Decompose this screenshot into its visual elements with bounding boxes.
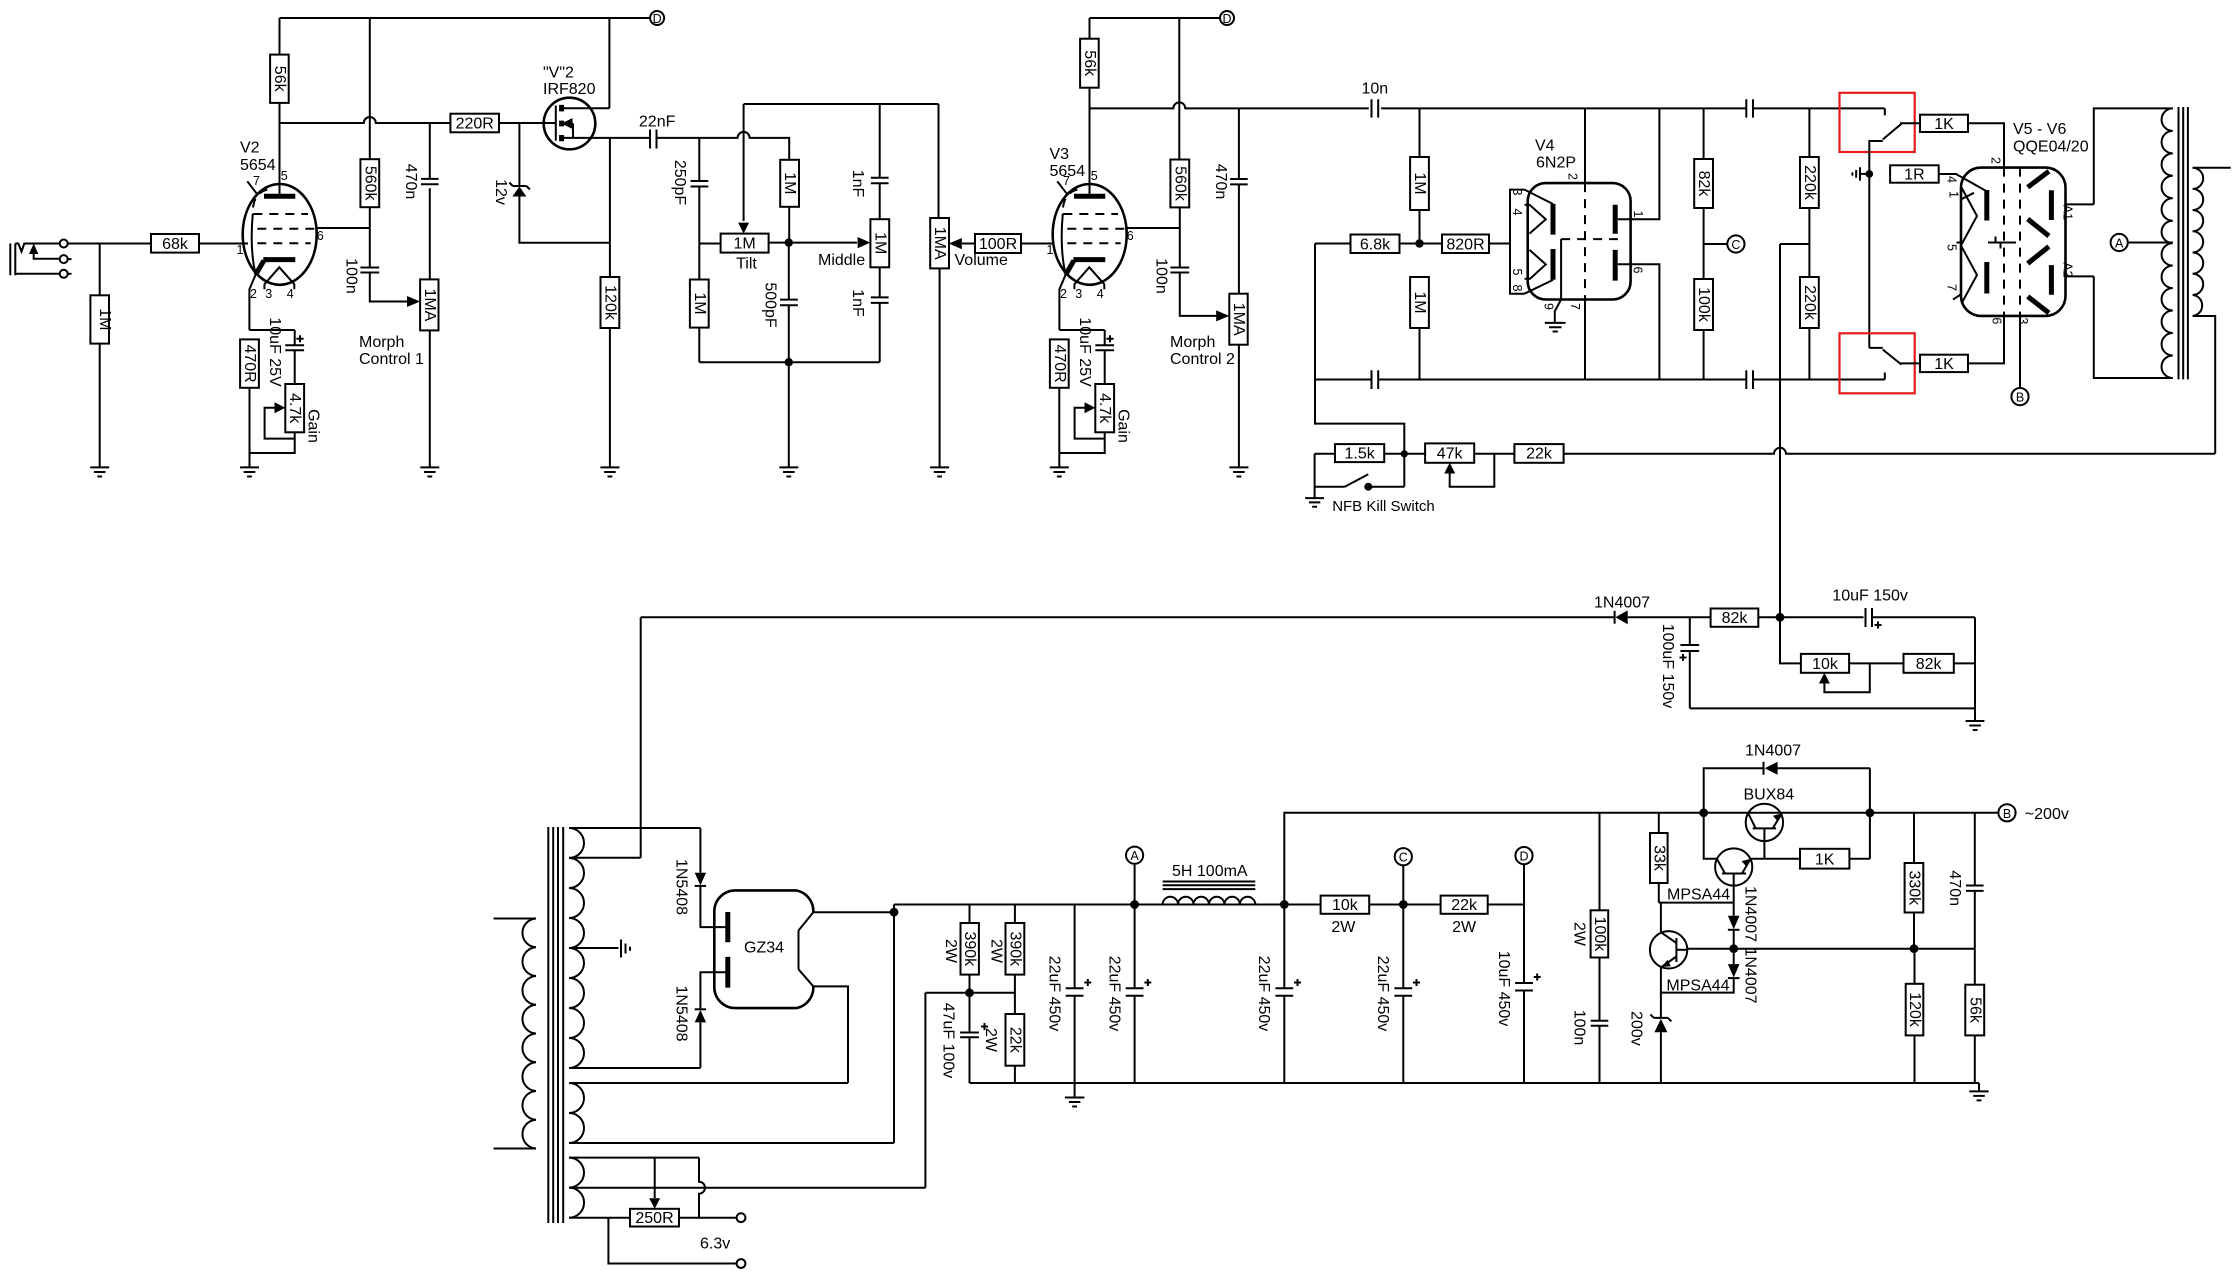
svg-text:~200v: ~200v	[2025, 806, 2069, 823]
svg-text:10uF 25V: 10uF 25V	[1076, 317, 1093, 387]
svg-text:1M: 1M	[871, 232, 888, 254]
svg-text:7: 7	[1063, 174, 1070, 188]
rail (V3 top)	[1090, 17, 1221, 19]
svg-text:5H 100mA: 5H 100mA	[1172, 863, 1248, 880]
resistor 10k 2W	[1321, 896, 1370, 914]
svg-text:500pF: 500pF	[762, 282, 779, 328]
svg-text:10k: 10k	[1332, 897, 1359, 914]
svg-text:4: 4	[1097, 287, 1104, 301]
svg-text:22uF 450v: 22uF 450v	[1106, 956, 1123, 1032]
svg-text:A: A	[2115, 237, 2124, 251]
svg-text:2: 2	[250, 287, 257, 301]
resistor 470R	[249, 330, 294, 345]
pot 1MA (Morph Control 2)	[1229, 294, 1247, 345]
capacitor 100uF 150v	[1689, 617, 1691, 645]
svg-text:1M: 1M	[1411, 172, 1428, 194]
svg-text:6N2P: 6N2P	[1536, 155, 1576, 172]
svg-text:5: 5	[1091, 169, 1098, 183]
svg-text:V2: V2	[240, 140, 260, 157]
diode 1N4007 (bypass)	[1704, 768, 1764, 813]
svg-text:470R: 470R	[241, 344, 258, 382]
svg-text:120k: 120k	[601, 285, 618, 321]
screen feed vertical (220k mid to divider)	[1779, 244, 1781, 613]
capacitor 10n	[1372, 99, 1379, 117]
svg-text:56k: 56k	[1081, 50, 1098, 77]
5V winding	[569, 1083, 584, 1143]
svg-text:A: A	[1130, 849, 1139, 863]
node dot (V4 grid divider)	[1415, 239, 1423, 247]
junction dot (grid ref)	[1866, 170, 1874, 178]
svg-text:82k: 82k	[1695, 171, 1712, 198]
V4 right vertical	[1584, 300, 1586, 380]
svg-text:3: 3	[2016, 317, 2030, 324]
svg-text:390k: 390k	[961, 931, 978, 967]
capacitor 22uF 450v (2)	[1134, 905, 1136, 989]
rail (V2 top)	[280, 17, 651, 19]
svg-text:5: 5	[1945, 244, 1959, 251]
svg-text:Control 2: Control 2	[1170, 351, 1235, 368]
resistor 56k (sense)	[1974, 949, 1976, 985]
svg-text:Control 1: Control 1	[359, 351, 424, 368]
resistor 820R	[1442, 235, 1489, 254]
resistor 22k (NFB)	[1514, 444, 1563, 463]
svg-text:QQE04/20: QQE04/20	[2013, 139, 2089, 156]
ground (Morph2)	[1229, 467, 1248, 476]
jack switch (lower)	[1869, 348, 1901, 365]
svg-text:5: 5	[281, 169, 288, 183]
wire rail to 560k (V3)	[1178, 18, 1180, 160]
wire base node to 1K	[1751, 858, 1800, 860]
svg-text:100k: 100k	[1591, 917, 1608, 953]
resistor 1M (V4 lower)	[1410, 277, 1429, 328]
capacitor 10uF 25V (V3)	[1095, 345, 1114, 350]
wire 22nF to 1M top (with hop over tilt wiper)	[699, 132, 789, 160]
zener 12v	[518, 123, 520, 186]
resistor 1K (lower grid)	[1900, 362, 1920, 364]
transistor MPSA44 (upper)	[1715, 848, 1752, 915]
HT tap to standby line	[569, 617, 641, 858]
diode 1N4007 (feed)	[1614, 611, 1616, 624]
diode 1N4007 (base lower)	[1733, 949, 1735, 964]
node C	[1704, 243, 1728, 245]
svg-text:A1: A1	[2060, 205, 2074, 220]
svg-text:200v: 200v	[1628, 1011, 1645, 1046]
wiper arrow Morph1	[407, 296, 420, 307]
capacitor 500pF	[788, 243, 790, 300]
svg-text:470n: 470n	[1212, 164, 1229, 200]
svg-text:6: 6	[1127, 229, 1134, 243]
svg-text:47uF 100v: 47uF 100v	[940, 1003, 957, 1079]
svg-text:1: 1	[237, 243, 244, 257]
node D (V3 rail)	[1220, 11, 1234, 25]
svg-text:1: 1	[1631, 211, 1645, 218]
svg-text:470n: 470n	[402, 164, 419, 200]
power transformer T1 primary	[494, 918, 537, 920]
tube V2 5654	[237, 123, 324, 330]
svg-text:9: 9	[1542, 303, 1556, 310]
wire V4 pin1 up	[1618, 108, 1660, 219]
svg-text:1N4007: 1N4007	[1742, 947, 1759, 1003]
pot 4.7k (Gain V3)	[1095, 384, 1114, 432]
resistor 1K (regulator)	[1800, 849, 1849, 869]
pot 4.7k (Gain)	[285, 384, 304, 432]
svg-text:1K: 1K	[1934, 356, 1954, 373]
svg-text:330k: 330k	[1906, 870, 1923, 906]
capacitor 10uF 450v	[1523, 905, 1525, 984]
ground (main)	[1074, 1083, 1076, 1098]
svg-text:100R: 100R	[979, 236, 1017, 253]
svg-text:220k: 220k	[1801, 285, 1818, 321]
resistor 1M (tone bottom-left)	[690, 280, 709, 328]
capacitor 1nF (top)	[879, 104, 881, 178]
resistor 56k (V3 plate)	[1080, 39, 1099, 88]
resistor 1.5k	[1315, 453, 1335, 455]
ground (grid ref)	[1860, 173, 1869, 175]
svg-text:1K: 1K	[1934, 116, 1954, 133]
ground (V3 cathode)	[1050, 467, 1069, 476]
svg-text:5: 5	[1510, 269, 1524, 276]
pot 250R (humdinger)	[654, 1158, 656, 1198]
svg-text:8: 8	[1510, 285, 1524, 292]
svg-text:100uF 150v: 100uF 150v	[1659, 624, 1676, 709]
node A (PSU)	[1126, 847, 1143, 864]
capacitor 47uF 100v	[960, 1033, 979, 1038]
wire Tilt to node	[769, 242, 789, 244]
svg-text:22uF 450v: 22uF 450v	[1374, 956, 1391, 1032]
resistor 390k 2W (left)	[969, 905, 971, 924]
resistor 82k (V4 plate upper)	[1703, 108, 1705, 159]
svg-text:A2: A2	[2060, 262, 2074, 277]
pot 1MA (Volume)	[938, 104, 940, 218]
svg-text:V5 - V6: V5 - V6	[2013, 121, 2066, 138]
node D (PSU)	[1515, 847, 1532, 864]
svg-text:V3: V3	[1050, 146, 1070, 163]
svg-text:7: 7	[1568, 303, 1582, 310]
svg-text:D: D	[1222, 12, 1231, 26]
ground (120k)	[600, 467, 619, 476]
svg-text:2: 2	[1566, 173, 1580, 180]
wire 56k to 220R (gate line) with hop	[280, 117, 451, 123]
transistor MPSA44 (lower)	[1650, 931, 1730, 994]
svg-text:22uF 450v: 22uF 450v	[1255, 956, 1272, 1032]
heater reference riser	[925, 993, 960, 1188]
wire V2 pin6 row	[317, 228, 370, 268]
svg-text:470n: 470n	[1946, 870, 1963, 906]
svg-text:220k: 220k	[1801, 165, 1818, 201]
input jack J1	[10, 240, 71, 278]
svg-text:Volume: Volume	[955, 252, 1008, 269]
tone stack bottom wire	[699, 361, 879, 363]
tone stack top wire	[744, 103, 939, 105]
wire V3 pin6 row	[1127, 228, 1180, 268]
ground (input)	[90, 467, 109, 476]
svg-text:56k: 56k	[1966, 997, 1983, 1024]
resistor 220k (upper)	[1808, 108, 1810, 157]
svg-text:220R: 220R	[456, 116, 494, 133]
svg-text:100n: 100n	[343, 258, 360, 294]
capacitor 10uF 25V	[285, 345, 304, 350]
svg-text:250R: 250R	[635, 1210, 673, 1227]
svg-text:1nF: 1nF	[849, 170, 866, 198]
NFB line to output transformer (hop at 1780)	[1564, 448, 2216, 454]
svg-text:BUX84: BUX84	[1744, 786, 1795, 803]
standby feed line	[641, 616, 1615, 618]
svg-text:C: C	[1399, 851, 1408, 865]
svg-text:560k: 560k	[1171, 166, 1188, 202]
relay box (upper, red)	[1840, 93, 1915, 152]
svg-text:3: 3	[1510, 189, 1524, 196]
capacitor 470n (V2)	[429, 123, 431, 179]
svg-text:IRF820: IRF820	[543, 81, 596, 98]
capacitor 470n (V3)	[1238, 108, 1240, 179]
capacitor 470n (reg)	[1974, 813, 1976, 886]
svg-text:4: 4	[1945, 176, 1959, 183]
svg-text:4: 4	[1510, 209, 1524, 216]
resistor 82k (divider top)	[1711, 609, 1759, 627]
svg-text:1nF: 1nF	[849, 289, 866, 317]
svg-text:6: 6	[1631, 267, 1645, 274]
jack switch (upper)	[1869, 124, 1901, 174]
tube V4 6N2P	[1510, 108, 1645, 323]
svg-text:390k: 390k	[1006, 931, 1023, 967]
ground (switch)	[1314, 487, 1316, 498]
svg-text:4.7k: 4.7k	[1096, 393, 1113, 424]
svg-text:MPSA44: MPSA44	[1666, 978, 1729, 995]
B+ rail	[894, 904, 1524, 906]
6.3V heater winding	[569, 1158, 584, 1218]
zener 200v	[1650, 1014, 1671, 1021]
resistor 6.8k	[1315, 243, 1351, 245]
diode 1N5408 (lower)	[699, 1022, 701, 1068]
svg-text:1N4007: 1N4007	[1594, 595, 1650, 612]
svg-text:C: C	[1731, 238, 1740, 252]
svg-text:1N5408: 1N5408	[673, 859, 690, 915]
svg-text:33k: 33k	[1650, 845, 1667, 872]
NFB kill switch	[1315, 454, 1369, 487]
main line 10n to output caps	[1381, 108, 1885, 115]
resistor 68k	[151, 234, 199, 253]
mosfet "V"2 IRF820	[543, 18, 650, 149]
svg-text:4.7k: 4.7k	[286, 393, 303, 424]
svg-text:2W: 2W	[1331, 919, 1356, 936]
pot 1M (Tilt)	[721, 234, 769, 253]
base sense line	[1687, 948, 1975, 950]
svg-text:1MA: 1MA	[421, 288, 438, 321]
svg-text:56k: 56k	[271, 66, 288, 93]
ground (Volume)	[930, 467, 949, 476]
svg-text:560k: 560k	[361, 166, 378, 202]
node dot (tone)	[785, 238, 793, 246]
choke 5H 100mA	[1163, 882, 1256, 890]
svg-text:10uF 150v: 10uF 150v	[1832, 588, 1908, 605]
svg-text:470R: 470R	[1051, 344, 1068, 382]
svg-text:10n: 10n	[1362, 81, 1389, 98]
node A (OT center tap)	[2111, 234, 2128, 251]
wire 68k to V2 pin1	[199, 243, 248, 245]
HT secondary winding	[569, 828, 584, 1068]
svg-text:1N4007: 1N4007	[1745, 743, 1801, 760]
capacitor 100n (V2)	[360, 268, 379, 273]
capacitor 22nF	[650, 130, 657, 149]
resistor 470R (V3)	[1059, 330, 1104, 345]
svg-text:Morph: Morph	[359, 334, 404, 351]
transistor BUX84	[1744, 786, 1795, 858]
svg-text:22nF: 22nF	[639, 113, 676, 130]
capacitor 100n (V3)	[1170, 268, 1189, 273]
capacitor 250pF	[698, 138, 700, 181]
tube V3 5654	[1047, 108, 1134, 330]
svg-text:10uF 450v: 10uF 450v	[1495, 951, 1512, 1027]
vertical grid-ref bus	[1868, 174, 1870, 348]
svg-text:2W: 2W	[942, 939, 959, 964]
capacitor 1nF (bottom)	[879, 267, 881, 297]
resistor 220R	[450, 114, 499, 133]
GZ34 heater to 5V winding	[813, 986, 848, 1083]
svg-text:NFB Kill Switch: NFB Kill Switch	[1332, 498, 1435, 515]
svg-text:2W: 2W	[982, 1028, 999, 1053]
tube GZ34	[714, 890, 813, 1008]
resistor 560k	[360, 159, 379, 207]
svg-text:B: B	[2016, 391, 2024, 405]
pot 47k	[1425, 443, 1474, 462]
svg-text:100n: 100n	[1153, 258, 1170, 294]
svg-text:1M: 1M	[96, 308, 113, 330]
wire reg collector	[1704, 813, 1717, 859]
svg-text:2W: 2W	[1452, 919, 1477, 936]
capacitor 22uF 450v (1)	[1074, 905, 1076, 989]
resistor 1K (upper grid)	[1900, 122, 1920, 124]
ground rail	[970, 1082, 1980, 1084]
svg-text:Tilt: Tilt	[736, 255, 757, 272]
wire 250pF to Tilt	[699, 243, 720, 245]
svg-text:820R: 820R	[1446, 236, 1484, 253]
resistor 330k	[1913, 813, 1915, 863]
svg-text:22k: 22k	[1006, 1027, 1023, 1054]
pot 10k (divider)	[1801, 654, 1849, 673]
svg-text:1M: 1M	[733, 236, 755, 253]
svg-text:D: D	[653, 12, 662, 26]
svg-text:6: 6	[317, 229, 324, 243]
svg-text:D: D	[1519, 850, 1528, 864]
svg-text:1R: 1R	[1904, 166, 1924, 183]
svg-text:1MA: 1MA	[931, 227, 948, 260]
node C (PSU)	[1395, 848, 1412, 865]
resistor 560k (V3)	[1170, 160, 1189, 208]
svg-text:5654: 5654	[240, 157, 276, 174]
pot 1M (Middle)	[870, 219, 889, 267]
svg-text:1: 1	[1947, 191, 1961, 198]
svg-text:1M: 1M	[781, 172, 798, 194]
NFB feed vertical	[1315, 244, 1404, 454]
node B (output)	[2019, 316, 2021, 388]
svg-text:10k: 10k	[1812, 656, 1839, 673]
capacitor 22uF 450v (4)	[1402, 905, 1404, 989]
svg-text:V4: V4	[1535, 138, 1555, 155]
svg-text:22uF 450v: 22uF 450v	[1046, 956, 1063, 1032]
svg-text:2W: 2W	[988, 939, 1005, 964]
resistor 33k	[1658, 813, 1660, 833]
diode 1N5408 (upper)	[699, 828, 701, 873]
wire node to Middle (arrow)	[789, 242, 857, 244]
wire 220R to gate	[499, 122, 556, 124]
svg-text:10uF 25V: 10uF 25V	[266, 317, 283, 387]
relay box (lower, red)	[1840, 333, 1915, 393]
diode 1N4007 (base upper)	[1728, 916, 1740, 929]
svg-text:MPSA44: MPSA44	[1667, 887, 1730, 904]
B+ takeoff	[813, 905, 894, 913]
transformer core	[548, 827, 563, 1223]
svg-text:82k: 82k	[1916, 656, 1943, 673]
svg-text:Gain: Gain	[304, 409, 321, 443]
wiper arrow Morph2	[1216, 310, 1229, 321]
svg-text:3: 3	[1075, 287, 1082, 301]
resistor 82k (divider lower)	[1904, 654, 1954, 673]
resistor 120k (sense)	[1914, 949, 1916, 984]
HT bottom lead	[569, 1067, 700, 1069]
svg-text:1.5k: 1.5k	[1344, 446, 1375, 463]
svg-text:Gain: Gain	[1114, 409, 1131, 443]
svg-text:68k: 68k	[162, 236, 189, 253]
resistor 22k 2W (bias)	[1006, 1014, 1025, 1066]
resistor 1M (input)	[99, 244, 101, 468]
ground (V2 cathode)	[240, 467, 259, 476]
svg-text:4: 4	[287, 287, 294, 301]
wiper arrow Volume	[949, 238, 962, 249]
svg-text:250pF: 250pF	[671, 160, 688, 206]
svg-text:2: 2	[1989, 157, 2003, 164]
resistor 1M (tone top)	[780, 160, 799, 207]
svg-text:47k: 47k	[1437, 446, 1464, 463]
resistor 1M (V4 upper)	[1419, 108, 1421, 157]
coupling capacitor (top, unlabeled)	[1746, 99, 1753, 117]
svg-text:7: 7	[1945, 284, 1959, 291]
ground (tone stack)	[779, 467, 798, 476]
svg-text:6.8k: 6.8k	[1360, 236, 1391, 253]
node D (V2 rail)	[650, 11, 664, 25]
svg-text:1N5408: 1N5408	[673, 985, 690, 1041]
svg-text:2: 2	[1060, 287, 1067, 301]
capacitor 10uF 150v	[1866, 608, 1873, 627]
svg-text:1M: 1M	[691, 292, 708, 314]
svg-text:GZ34: GZ34	[744, 940, 784, 957]
svg-text:82k: 82k	[1722, 610, 1749, 627]
svg-text:100n: 100n	[1571, 1010, 1588, 1046]
svg-text:1M: 1M	[1411, 291, 1428, 313]
resistor 22k 2W (rail)	[1441, 896, 1488, 914]
resistor 100R	[975, 234, 1021, 253]
ground (V4 cathode)	[1545, 323, 1566, 332]
main line V3 to V4 (hop at 560k feed)	[1090, 102, 1369, 108]
svg-text:6: 6	[1990, 317, 2004, 324]
ground (divider)	[1974, 708, 1976, 721]
svg-text:1MA: 1MA	[1230, 303, 1247, 336]
ground (reg)	[1978, 1083, 1980, 1091]
svg-text:1K: 1K	[1815, 852, 1835, 869]
svg-text:7: 7	[253, 174, 260, 188]
ground (Morph1)	[420, 467, 439, 476]
capacitor 22uF 450v (3)	[1283, 905, 1285, 989]
bottom coupling line	[1315, 373, 1885, 380]
svg-text:100k: 100k	[1695, 287, 1712, 323]
resistor 56k (V2 plate)	[270, 55, 289, 103]
pot 1MA (Morph Control 1)	[420, 279, 438, 330]
HT center tap ground	[569, 947, 619, 949]
svg-text:Morph: Morph	[1170, 334, 1215, 351]
resistor 220k (lower)	[1800, 277, 1819, 328]
resistor 100k 2W	[1599, 813, 1601, 911]
svg-text:6.3v: 6.3v	[700, 1236, 730, 1253]
capacitor 100n (bias filter)	[1591, 1021, 1609, 1026]
